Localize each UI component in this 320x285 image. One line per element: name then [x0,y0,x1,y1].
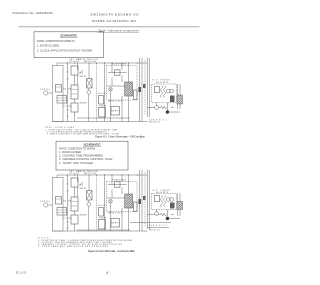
bundle blob 2 [143,196,146,200]
svg-text:SW2 NC: SW2 NC [80,188,88,190]
svg-text:Figure O-2. Oven Schematic—Coo: Figure O-2. Oven Schematic—Cooking Condi… [88,249,135,253]
HV capacitor dot [166,110,169,113]
HV dark blob [170,96,175,103]
wire x122 [121,175,123,231]
wire x89 [88,175,90,231]
wire bottom second [77,117,130,119]
svg-text:4. OVEN LAMP AND FAN MOTOR ARE: 4. OVEN LAMP AND FAN MOTOR ARE ENERGIZED [38,245,109,248]
box FM [111,107,120,116]
box B2 [71,85,78,99]
secondary winding [164,195,166,207]
HV transformer dashed box [152,84,177,103]
NF terminal circle [109,200,113,204]
box FM [111,219,120,228]
svg-text:EW26MO/FA EW26MO-SO: EW26MO/FA EW26MO-SO [91,12,140,16]
wire top bus [57,62,147,64]
rail A [67,175,69,231]
svg-text:Figure O-1. Oven Schematic—Off: Figure O-1. Oven Schematic—Off Condition [95,135,145,139]
svg-text:E105: E105 [16,271,26,275]
svg-text:6: 6 [107,271,109,275]
svg-text:TM SW: TM SW [63,89,71,91]
HV wire h2 [169,215,180,219]
NF transformer dark block [125,194,133,208]
svg-text:FA2 NC-200: FA2 NC-200 [84,60,96,63]
bundle blob 1 [138,87,141,92]
wire stub to loop [56,63,58,66]
HV transformer dashed box [152,194,177,210]
primary winding [161,86,163,98]
box B2 [71,197,78,211]
noise filter dashed box [107,182,138,212]
wire top bus [57,174,147,176]
wire bundle 2 [144,60,146,115]
relay box K2 hatched [57,208,67,216]
svg-text:NC-2004: NC-2004 [70,61,80,63]
filament circle 1 [166,89,170,93]
svg-text:CON A-1: CON A-1 [40,88,50,91]
svg-text:4. “START” PAD TOUCHED: 4. “START” PAD TOUCHED [59,161,93,165]
NF transformer dark block [125,82,133,96]
CON circle HV [155,106,159,110]
svg-text:2. COOKING TIME PROGRAMMED: 2. COOKING TIME PROGRAMMED [59,154,103,158]
svg-text:SCHEMATIC: SCHEMATIC [60,34,78,38]
rail B [74,187,76,231]
magnetron block [177,95,183,104]
main loop rectangle [52,178,63,232]
top note box [34,32,104,58]
svg-text:3. VARIABLE COOKING CONTROL “H: 3. VARIABLE COOKING CONTROL “HIGH” [59,157,113,161]
NF inner box [115,70,121,75]
wire x77.5 [77,63,79,85]
monitor relay X box [87,79,93,89]
bottom bus [52,230,147,232]
svg-text:Publication No. 046945C50: Publication No. 046945C50 [13,11,53,15]
svg-text:CON B: CON B [149,225,158,227]
svg-text:NOTE: CONDITION TO SHOW: NOTE: CONDITION TO SHOW [59,146,96,150]
fuse circle CON A [44,203,48,207]
HV inner box [155,87,160,93]
svg-text:SW2 NC: SW2 NC [80,76,88,78]
svg-text:TM MTR: TM MTR [99,106,107,108]
svg-text:FM MTR: FM MTR [112,223,120,225]
svg-text:NC-2004: NC-2004 [70,173,80,175]
main loop rectangle [52,66,63,122]
magnetron wires [178,194,181,217]
bottom bus [52,121,147,123]
node dots on top bus [67,174,138,175]
svg-text:FA FM CON B: FA FM CON B [108,211,123,214]
wire bundle 2 [144,172,146,227]
svg-text:RY1 RLY: RY1 RLY [98,205,107,207]
svg-text:H.V.C: H.V.C [159,225,168,227]
circle below X box [87,202,91,206]
rail D [128,63,130,122]
NF inner wire 2 [107,85,125,87]
NF inner box [115,182,121,187]
wire stub to loop [56,175,58,178]
filament circle 2 [170,198,174,202]
relay box K1 [56,85,62,93]
rail B [74,75,76,122]
CON circle HV [155,212,159,216]
svg-text:FA-6784 M: FA-6784 M [156,191,169,194]
svg-text:TM SW: TM SW [63,201,71,203]
svg-text:FA FM CON B: FA FM CON B [108,99,123,102]
svg-text:FA-201 XC: FA-201 XC [149,229,161,232]
svg-text:1. DOOR CLOSED: 1. DOOR CLOSED [59,150,81,154]
bundle blob 2 [143,84,146,88]
wire bundle 1 [140,58,143,122]
magnetron block [177,202,183,210]
NF inner wire 2 [107,197,125,199]
rail A ticks [66,184,68,228]
rail D [128,175,130,231]
HV dark blob [170,203,175,209]
svg-text:FA-6784 M: FA-6784 M [156,81,169,84]
rail A ticks [66,72,68,116]
bundle blob 1 [138,199,141,204]
svg-text:SW3 NO: SW3 NO [80,103,88,105]
filament circle 2 [170,89,174,93]
dashed rail [96,175,98,231]
primary winding [161,195,163,207]
svg-text:NOISE FILTER: NOISE FILTER [112,63,127,65]
HV wire h1 [147,214,160,216]
wire bundle 1 [140,170,143,231]
relay box K1 [56,197,62,205]
interlock switch [80,182,84,185]
box B1 [71,66,78,75]
svg-text:TM MTR: TM MTR [99,218,107,220]
bottom note box [56,141,128,170]
box S1 [99,208,104,217]
wire bottom second [77,229,130,231]
rail A [67,63,69,122]
svg-text:NOTE: CONDITION OF DISPLAY: NOTE: CONDITION OF DISPLAY [37,39,75,43]
box S1 [99,96,104,105]
fuse circle CON A [44,91,48,95]
filament circle 1 [166,198,170,202]
svg-text:H.V.C: H.V.C [159,119,168,121]
box TM [99,108,106,118]
svg-text:FM MTR: FM MTR [112,111,120,113]
monitor relay X box [87,191,93,201]
svg-text:1. DOOR CLOSED: 1. DOOR CLOSED [37,44,59,48]
node dots on top bus [67,62,138,63]
dashed rail [96,63,98,122]
box B1 [71,178,78,187]
HV zigzag [161,106,167,109]
rail C [104,175,106,231]
interlock switch [80,70,84,73]
svg-text:FA2 NC-200: FA2 NC-200 [84,172,96,175]
rail C [104,63,106,122]
secondary winding [164,86,166,98]
wire fuse to loop [48,204,53,206]
box B3 [71,103,78,112]
bottom extra wires [130,223,171,228]
svg-text:2. CLOCK APPLICATION DISPLAY S: 2. CLOCK APPLICATION DISPLAY SHOWN [37,48,92,52]
wire x122 [121,63,123,122]
noise filter dashed box [107,66,138,101]
double line right [147,58,149,117]
svg-text:CON A-1: CON A-1 [40,200,50,203]
svg-text:RY1 RLY: RY1 RLY [98,93,107,95]
NF right box [134,90,138,100]
header rule [19,26,200,28]
svg-text:FA-201 XC: FA-201 XC [149,121,161,124]
HV capacitor dot [166,217,169,220]
svg-text:SW3 NO: SW3 NO [80,215,88,217]
HV wire h1 [147,107,160,109]
svg-text:SCHEMATIC: SCHEMATIC [84,142,102,146]
HV inner box [155,196,160,202]
svg-text:NOISE FILTER: NOISE FILTER [112,179,127,181]
HV wire h2 [169,108,180,113]
NF right box [134,202,138,212]
NF inner wire 1 [108,72,127,74]
box TM [99,220,106,230]
circle below X box [87,90,91,94]
double line right [147,170,149,229]
wire x77.5 [77,175,79,197]
HV zigzag [161,213,167,216]
NF inner wire 1 [108,184,127,186]
NF terminal circle [109,88,113,92]
wire x89 [88,63,90,122]
svg-text:W26M5.SC/W26M5C-MO: W26M5.SC/W26M5C-MO [92,19,137,23]
magnetron wires [178,84,181,109]
wire x112 [111,63,113,122]
wire x112 [111,175,113,231]
box B3 [71,215,78,224]
wire fuse to loop [48,92,53,94]
relay box K2 hatched [57,96,67,104]
